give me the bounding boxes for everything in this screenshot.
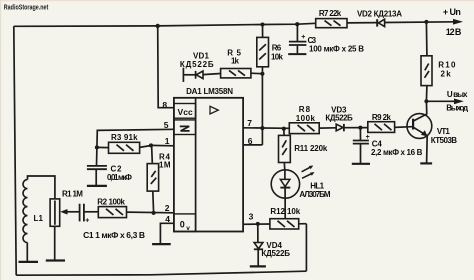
svg-text:R3 91k: R3 91k: [111, 133, 138, 142]
U vyh output arrowhead: [454, 99, 464, 105]
wire: R5 right lead: [251, 72, 263, 75]
node: top rail junction R6: [260, 22, 264, 26]
svg-text:7: 7: [247, 118, 252, 128]
wire: Vcc drop to pin 8: [158, 26, 174, 108]
svg-text:+ Un: + Un: [443, 7, 461, 17]
svg-text:КД522Б: КД522Б: [325, 113, 353, 122]
capacitor C1: [79, 204, 81, 222]
svg-text:100k: 100k: [296, 114, 316, 123]
op-amp U1 DA1 LM358N body: [174, 98, 243, 232]
R1 wiper arrow: [66, 211, 79, 213]
svg-text:R11 220k: R11 220k: [294, 144, 328, 153]
wire: R8 to VD3: [319, 127, 336, 129]
wire: pin6 vertical riser: [261, 74, 263, 145]
svg-text:DA1 LM358N: DA1 LM358N: [186, 87, 233, 96]
wire: VD3 to R9: [344, 127, 368, 129]
svg-text:R10: R10: [438, 60, 456, 69]
svg-text:+: +: [85, 218, 89, 225]
wire: R4 top lead: [151, 145, 154, 163]
op-amp Vcc cell: [174, 104, 196, 119]
wire: pin 4 and ground: [160, 223, 174, 243]
LED HL1: [271, 170, 299, 198]
wire: rail to R10: [425, 22, 428, 55]
wire: R11 top lead: [283, 129, 285, 136]
wire: top supply rail: [14, 23, 316, 26]
ground bar C3: [288, 53, 306, 55]
resistor R4: [147, 164, 158, 192]
resistor R8: [289, 123, 319, 134]
wire: pin 6 horizontal: [243, 144, 262, 146]
diode VD3: [336, 124, 343, 131]
node: pin7 crossing: [260, 126, 264, 130]
resistor R10: [421, 56, 432, 86]
svg-text:2,2 мкФ x 16 В: 2,2 мкФ x 16 В: [371, 148, 423, 157]
node: R5/R6/pin6 junction: [260, 72, 264, 76]
resistor R2: [98, 207, 126, 218]
scan edge tint left: [0, 0, 1, 280]
wire: pin 2: [127, 211, 174, 214]
wire: bottom rail: [16, 271, 306, 275]
+Un output arrowhead: [453, 19, 463, 25]
node: output junction: [424, 99, 428, 103]
svg-text:2: 2: [165, 203, 170, 213]
wire: left vertical rail: [14, 26, 16, 275]
svg-text:6: 6: [248, 136, 253, 146]
svg-text:Vcc: Vcc: [178, 107, 193, 117]
ground bar VD4: [250, 265, 266, 267]
wire: pin 3: [243, 223, 270, 225]
node: pin2/R4 junction: [152, 211, 156, 215]
capacitor C4: [359, 128, 361, 140]
ground bar C2: [87, 185, 107, 187]
ground bar C4: [352, 163, 370, 165]
wire: collector riser: [425, 101, 427, 114]
op-amp hysteresis cell: [174, 120, 196, 135]
resistor R7: [316, 19, 347, 28]
wire: R3 left lead: [97, 146, 109, 148]
svg-text:RadioStorage.net: RadioStorage.net: [4, 4, 49, 11]
svg-text:КД522Б: КД522Б: [180, 60, 214, 69]
wire: R3 right lead to pin1 node: [140, 146, 151, 148]
wire: R12 right lead: [299, 223, 307, 225]
svg-text:2k: 2k: [441, 70, 452, 79]
wire: pin 1: [151, 144, 174, 146]
svg-text:1k: 1k: [231, 56, 240, 65]
resistor R5: [221, 69, 251, 78]
svg-text:5: 5: [164, 120, 169, 130]
svg-text:R8: R8: [299, 105, 311, 114]
wire: output to arrow: [426, 100, 455, 102]
svg-text:12 В: 12 В: [446, 27, 462, 37]
svg-text:10k: 10k: [271, 52, 284, 61]
diode VD4: [257, 224, 259, 242]
node: C4 junction: [358, 126, 362, 130]
svg-text:4: 4: [165, 214, 170, 224]
svg-text:0: 0: [180, 220, 185, 230]
svg-text:1M: 1M: [159, 160, 171, 169]
svg-text:0,01 мкФ: 0,01 мкФ: [107, 173, 132, 182]
svg-text:R2 100k: R2 100k: [97, 198, 125, 207]
wire: R11 to HL1: [283, 162, 286, 171]
svg-text:R6: R6: [272, 44, 282, 53]
svg-text:VD2 КД213А: VD2 КД213А: [357, 9, 402, 18]
svg-text:3: 3: [249, 212, 254, 222]
svg-text:v: v: [186, 225, 190, 232]
op-amp triangle symbol: [210, 106, 218, 114]
svg-text:R9 2k: R9 2k: [372, 113, 392, 122]
wire: emitter lead: [426, 136, 429, 163]
svg-text:100 мкФ x 25 В: 100 мкФ x 25 В: [309, 45, 364, 54]
svg-text:L1: L1: [34, 214, 44, 223]
node: VD4 junction: [256, 222, 260, 226]
svg-text:КД522Б: КД522Б: [261, 249, 290, 258]
capacitor C2: [87, 165, 107, 167]
resistor R11: [279, 135, 291, 162]
node: R11 junction: [282, 127, 286, 131]
wire: pin 7: [243, 127, 289, 130]
ground bar pin4: [152, 243, 171, 245]
inductor L1: [28, 176, 55, 199]
svg-text:+: +: [366, 134, 370, 141]
wire: R1 bottom lead: [54, 226, 56, 260]
wire: R4 bottom lead: [152, 191, 155, 213]
wire: C1 to R2: [85, 211, 99, 213]
hysteresis symbol: [180, 126, 190, 130]
ground bar L1: [19, 261, 39, 263]
svg-text:C1 1 мкФ x 6,3 В: C1 1 мкФ x 6,3 В: [83, 230, 145, 240]
resistor R12: [270, 219, 299, 229]
svg-text:U вых: U вых: [447, 90, 468, 99]
wire: L1 bottom lead: [26, 243, 28, 262]
svg-text:+: +: [301, 34, 305, 41]
node: top rail junction to Vcc: [156, 24, 160, 28]
diode VD1: [182, 68, 184, 82]
ground bar VT1 emitter: [420, 162, 432, 164]
node: pin1/R4 junction: [149, 143, 153, 147]
diode VD2: [376, 19, 378, 26]
op-amp 0v cell: [174, 214, 196, 232]
op-amp internal divider: [195, 98, 197, 232]
wire: R12 right drop to bottom rail: [305, 224, 307, 272]
node: R3 left junction: [95, 145, 99, 149]
svg-text:8: 8: [162, 100, 167, 110]
transistor Q1 VT1: [407, 114, 432, 139]
svg-text:R12 10k: R12 10k: [270, 207, 300, 216]
svg-text:R1 1M: R1 1M: [62, 189, 83, 198]
scan edge tint top: [0, 0, 474, 1]
wire: R6 bottom to node: [261, 67, 263, 74]
resistor R9: [368, 122, 395, 133]
wire: VD1 to R5: [203, 74, 221, 75]
wire: top rail R7 to VD2: [347, 22, 377, 24]
node: rail junction R10: [424, 20, 428, 24]
svg-text:Выход: Выход: [446, 104, 468, 113]
LED HL1 arrows: [302, 166, 312, 172]
wire: pin 5: [97, 129, 174, 165]
node: top rail junction C3: [295, 22, 299, 26]
ground bar R1: [46, 259, 65, 261]
resistor R1 (variable): [50, 199, 60, 226]
wire: VD2 to +Un arrow: [385, 21, 454, 24]
wire: R9 to VT1 base: [395, 126, 413, 129]
svg-text:HL1: HL1: [310, 182, 324, 191]
svg-text:VT1: VT1: [437, 127, 450, 136]
resistor R6: [257, 37, 269, 66]
svg-text:R7 22k: R7 22k: [319, 9, 342, 18]
wire: rail to R6 top: [262, 25, 264, 38]
resistor R3: [109, 142, 140, 153]
svg-text:1: 1: [165, 136, 170, 146]
wire: R10 bottom to output node: [425, 86, 428, 101]
capacitor C3: [296, 24, 298, 41]
svg-text:КТ503В: КТ503В: [431, 136, 458, 145]
svg-text:АЛ307БМ: АЛ307БМ: [299, 190, 330, 199]
